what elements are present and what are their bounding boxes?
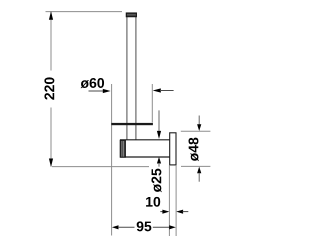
10 label [146, 197, 160, 207]
rod left edge [126, 17, 128, 140]
ø48 top arrow [197, 124, 201, 131]
10/95 extension line x=176.1 [175, 165, 177, 236]
ø25 bottom arrow [157, 157, 161, 164]
ø25 top arrow tail [158, 110, 160, 132]
wall plate ø48 edge view [170, 133, 176, 165]
95 dim left segment [118, 226, 135, 228]
10/95 extension line x=169.4 [168, 165, 170, 236]
ø48 label [189, 138, 199, 162]
top extension line [46, 11, 123, 13]
ø48 dim upper tail [198, 116, 200, 126]
ø25 top arrow [157, 131, 161, 139]
ø48 bottom extension line [181, 165, 210, 167]
ø60 left arrow [103, 89, 111, 93]
220 dimension line lower [50, 108, 52, 167]
95 left extension line [111, 121, 113, 236]
ø25 bottom arrow tail [158, 163, 160, 167]
arm body top edge [120, 139, 170, 141]
ø60 right arrow tail [160, 90, 174, 92]
220 dimension line upper [50, 12, 52, 71]
ø48 top extension line [181, 130, 211, 132]
rod top cap [126, 13, 136, 17]
ø60 right extension line [151, 84, 153, 123]
ø60 leader shelf [89, 90, 105, 92]
flange disc ø60 edge view [111, 123, 153, 125]
ø25 label [151, 169, 161, 193]
95 dim right segment [153, 226, 170, 228]
220 arrow down [49, 159, 53, 168]
rod right edge [135, 17, 137, 140]
95 dim right arrow [169, 225, 176, 229]
220 arrow up [49, 11, 53, 19]
ø60 right arrow [153, 88, 161, 92]
bottom long extension line [52, 166, 149, 168]
arm body bottom edge [120, 156, 170, 158]
95 label [137, 221, 152, 231]
ø60 label [81, 78, 105, 88]
ø48 dim lower tail [198, 173, 200, 182]
ø60 left extension line [111, 84, 113, 121]
220 label [44, 77, 54, 99]
95 dim left arrow [112, 225, 119, 229]
10 dim left tail + arrow [160, 211, 163, 213]
ø48 bottom arrow [197, 167, 201, 174]
arm knurled end cap [120, 140, 125, 157]
10 dim right arrow + tail [176, 210, 183, 214]
